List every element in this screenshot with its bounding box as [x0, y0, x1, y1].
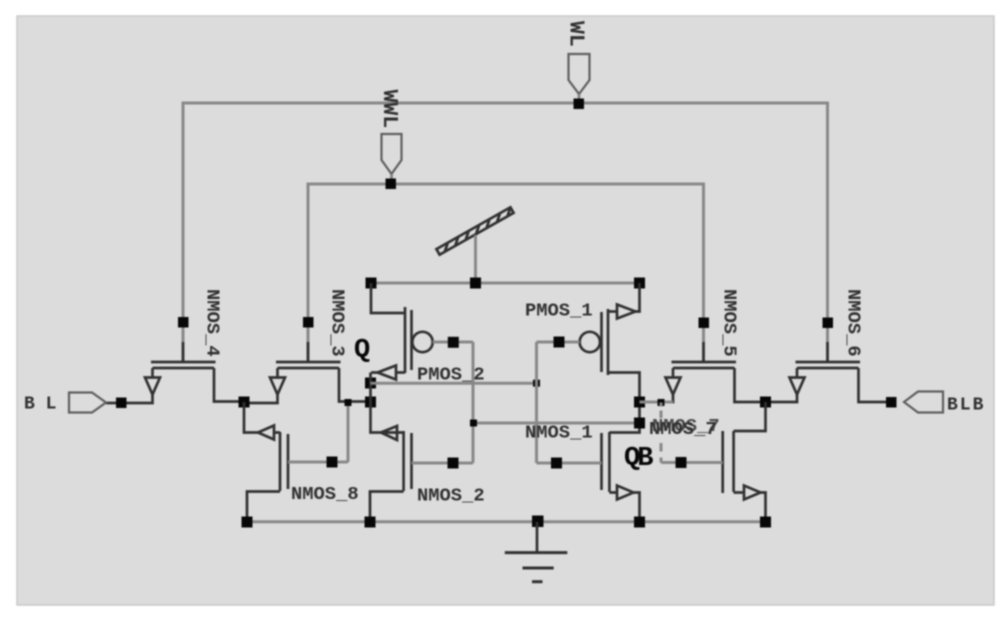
node NMOS_4 drain / NMOS_3 source junction [239, 397, 250, 408]
transistor NMOS_4 [106, 317, 244, 403]
wire NMOS_7 gate vertical (partially hidden by labels) [657, 403, 665, 463]
transistor PMOS_1 [537, 283, 640, 402]
node Q gate dot [533, 380, 540, 387]
svg-text:QB: QB [624, 444, 653, 474]
wire WWL port stem [390, 174, 393, 184]
node Q junction upper [365, 378, 376, 389]
svg-text:NMOS_5: NMOS_5 [719, 289, 741, 357]
wire NMOS_8 gate vertical [347, 403, 350, 463]
node Q junction lower [365, 397, 376, 408]
svg-text:WWL: WWL [377, 90, 401, 129]
node rail junction NMOS_7 [760, 517, 771, 528]
svg-text:NMOS_2: NMOS_2 [417, 485, 485, 507]
node rail junction NMOS_8 [242, 517, 253, 528]
node QB diamond [658, 399, 665, 406]
transistor NMOS_3 [244, 317, 371, 403]
node Q diamond [345, 399, 352, 406]
wire Q vertical [371, 373, 382, 433]
ground symbol [505, 522, 568, 582]
node WWL junction [386, 179, 397, 190]
svg-text:BLB: BLB [947, 396, 985, 416]
transistor PMOS_2 [371, 283, 473, 380]
wire NMOS_7 drain vertical [734, 402, 766, 431]
transistor NMOS_1 [537, 402, 640, 522]
node QB junction upper [634, 397, 645, 408]
node QB junction lower [634, 418, 645, 429]
svg-text:B L: B L [24, 395, 56, 415]
wire NMOS_8 drain vertical [244, 402, 280, 433]
svg-text:WL: WL [564, 21, 588, 47]
node vdd rail left junction [366, 278, 377, 289]
transistor NMOS_5 [640, 318, 766, 403]
wire QB gate cross wire [473, 422, 639, 425]
node rail junction NMOS_1 [634, 517, 645, 528]
svg-text:Q: Q [354, 336, 370, 366]
svg-text:NMOS_6: NMOS_6 [843, 289, 865, 357]
node rail junction NMOS_2 [365, 517, 376, 528]
transistor NMOS_8 [247, 426, 348, 522]
svg-text:NMOS_8: NMOS_8 [291, 483, 359, 505]
wire PMOS_2 NMOS_2 gate link [472, 342, 475, 463]
transistor NMOS_7 [661, 431, 766, 522]
svg-text:NMOS_1: NMOS_1 [525, 422, 593, 444]
wire WL port stem [578, 94, 581, 103]
wire WL rail [183, 103, 828, 362]
node QB gate dot [470, 420, 477, 427]
node BLB junction [886, 397, 897, 408]
transistor NMOS_2 [370, 426, 473, 522]
wire vdd stem [474, 235, 477, 283]
node BL junction [116, 398, 127, 409]
svg-text:NMOS_7: NMOS_7 [652, 415, 720, 437]
wire VDD rail [371, 282, 640, 285]
wire ground rail [247, 520, 766, 523]
port WL [569, 54, 590, 94]
svg-text:PMOS_1: PMOS_1 [525, 300, 593, 322]
node vdd rail right junction [634, 278, 645, 289]
wire Q gate cross wire [371, 382, 537, 385]
node vdd stem junction [470, 278, 481, 289]
svg-text:NMOS_4: NMOS_4 [202, 289, 224, 357]
wire QB to NMOS_5 [640, 401, 674, 404]
wire PMOS_1 NMOS_1 gate link [535, 342, 538, 463]
port WWL [382, 134, 402, 174]
node rail junction ground [532, 516, 544, 528]
node WL junction [574, 99, 585, 110]
power vdd bar symbol [436, 207, 513, 254]
wire WWL rail [308, 184, 704, 362]
svg-text:NMOS_3: NMOS_3 [327, 289, 349, 357]
port BLB [904, 392, 943, 413]
transistor NMOS_6 [766, 318, 892, 403]
node right mid junction [760, 397, 771, 408]
port BL [69, 393, 106, 413]
